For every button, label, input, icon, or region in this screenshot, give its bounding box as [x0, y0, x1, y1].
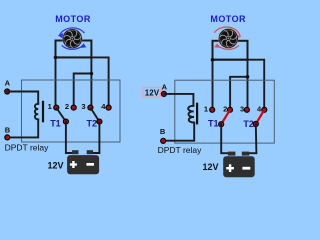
- contact 1: [210, 107, 215, 112]
- wire T1 to battery +: [221, 124, 229, 153]
- wire T2 to battery -: [248, 124, 256, 153]
- svg-text:2: 2: [223, 104, 227, 113]
- svg-text:3: 3: [240, 104, 244, 113]
- coil core bar: [42, 101, 44, 123]
- svg-text:2: 2: [65, 102, 69, 111]
- wire motor right lead to contact 3: [247, 60, 249, 107]
- contact 3: [88, 105, 93, 110]
- relay box outline (left): [22, 80, 121, 142]
- svg-text:T1: T1: [50, 118, 61, 128]
- wire motor left lead to contact 1: [212, 60, 214, 107]
- pole T2: [253, 121, 258, 126]
- svg-text:DPDT relay: DPDT relay: [158, 145, 203, 155]
- svg-text:T2: T2: [243, 119, 254, 129]
- motor M2 body box: [213, 41, 248, 60]
- wire motor bottom to contact 4: [213, 60, 265, 107]
- svg-text:T2: T2: [87, 118, 98, 128]
- wire A to coil top: [7, 92, 38, 104]
- contact 2: [227, 107, 232, 112]
- wire branch to contact 2: [74, 74, 92, 106]
- wire T2 to battery -: [91, 122, 99, 153]
- wire motor bottom to contact 4: [56, 57, 109, 105]
- relay box outline (right): [175, 80, 274, 143]
- relay coil L2: [188, 106, 194, 123]
- svg-text:DPDT relay: DPDT relay: [5, 143, 50, 153]
- fan M2: [219, 29, 239, 49]
- pole T2: [97, 119, 102, 124]
- coil core bar: [196, 103, 198, 125]
- wire motor right lead to contact 3: [90, 57, 92, 105]
- junction at motor left lead: [54, 56, 58, 60]
- battery BT1: [72, 150, 78, 154]
- svg-text:A: A: [5, 79, 11, 88]
- svg-text:MOTOR: MOTOR: [55, 14, 91, 24]
- junction at contact 3 branch: [246, 75, 250, 79]
- contact 4: [262, 107, 267, 112]
- blue rotation arrows (CCW): [59, 28, 84, 49]
- switch arm T2-3: [90, 108, 99, 122]
- junction at contact 3 branch: [90, 72, 94, 76]
- svg-text:1: 1: [204, 104, 208, 113]
- svg-text:MOTOR: MOTOR: [210, 14, 246, 24]
- battery BT2: [228, 152, 236, 156]
- svg-text:12V: 12V: [145, 88, 160, 97]
- switch arm T1-2 (energized, red): [221, 110, 230, 124]
- svg-text:12V: 12V: [203, 162, 219, 172]
- wire A to coil top: [164, 94, 194, 106]
- wire T1 to battery +: [66, 122, 74, 153]
- svg-text:12V: 12V: [48, 161, 64, 171]
- contact 3: [244, 107, 249, 112]
- svg-text:B: B: [160, 127, 166, 136]
- pole T1: [63, 119, 68, 124]
- svg-text:A: A: [162, 82, 168, 91]
- svg-text:3: 3: [81, 102, 85, 111]
- fan M1: [63, 29, 83, 49]
- pole T1: [219, 122, 224, 127]
- wire branch to contact 2: [230, 77, 247, 107]
- motor M1 body box: [56, 41, 92, 58]
- contact 4: [106, 105, 111, 110]
- junction at motor left lead: [211, 58, 215, 62]
- svg-text:B: B: [5, 125, 11, 134]
- contact 1: [54, 105, 59, 110]
- wire coil bottom to B: [163, 123, 194, 141]
- red rotation arrows (CW): [214, 27, 240, 49]
- relay coil L1: [35, 104, 38, 120]
- svg-text:1: 1: [48, 102, 52, 111]
- 12V supply label box: [143, 88, 161, 98]
- wire motor left lead to contact 1: [55, 57, 57, 105]
- svg-text:T1: T1: [208, 119, 219, 129]
- switch arm T2-4 (energized, red): [256, 110, 264, 124]
- contact 2: [71, 105, 76, 110]
- wire coil bottom to B: [7, 119, 38, 137]
- switch arm T1-1: [56, 108, 66, 122]
